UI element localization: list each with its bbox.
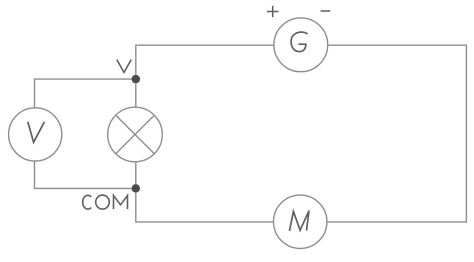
- voltmeter V letter: [28, 122, 45, 143]
- wire galvanometer right, down right side, to motor right: [327, 45, 466, 222]
- wire lamp bottom to node COM: [135, 162, 137, 184]
- voltmeter V circle: [9, 108, 62, 161]
- node COM label: [83, 195, 128, 209]
- galvanometer G letter: [291, 32, 308, 52]
- motor M circle: [274, 195, 327, 248]
- node V label: [117, 60, 132, 73]
- node V junction dot: [132, 75, 141, 84]
- lamp cross diagonal 2: [116, 115, 155, 154]
- wire node V up and top rail to galvanometer: [136, 45, 274, 75]
- minus label: [321, 10, 331, 12]
- node COM junction dot: [132, 184, 141, 193]
- wire motor left to COM corner and up to node COM: [136, 193, 274, 222]
- lamp cross diagonal 1: [116, 115, 155, 154]
- plus label: [267, 6, 278, 17]
- wire top-left from node V to voltmeter branch: [35, 79, 136, 108]
- wire node V down to lamp top: [135, 83, 137, 107]
- motor M letter: [290, 211, 310, 231]
- lamp circle: [108, 107, 163, 162]
- galvanometer G circle: [274, 18, 328, 72]
- wire voltmeter bottom to COM rail: [35, 161, 132, 188]
